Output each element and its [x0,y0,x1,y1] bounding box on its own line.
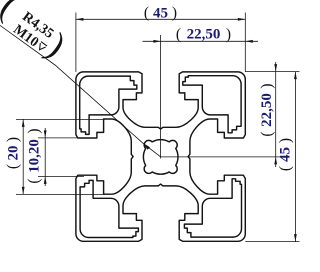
corner chamber bottom-right [184,179,241,237]
arrowhead (10,20) bottom [44,176,47,184]
dimension line (10,20) left [44,128,46,186]
dimension line (45) right [294,72,296,242]
horizontal centreline [161,156,280,158]
svg-text:(: ( [277,166,294,171]
svg-text:): ) [258,83,275,88]
dimension line (45) top [76,18,245,20]
dimension line (20) left [22,119,24,194]
svg-text:): ) [26,128,43,133]
corner chamber top-right [183,76,241,133]
arrowhead (22,50) top left [153,40,161,43]
svg-text:45: 45 [278,147,294,162]
extension line bottom edge, right dims [245,241,299,243]
svg-text:): ) [172,5,177,22]
extension line slot cavity top [16,118,105,120]
svg-text:): ) [277,138,294,143]
svg-text:(: ( [258,131,275,136]
centre bore [143,140,178,175]
arrowhead (20) top [22,119,25,127]
corner chamber top-left [80,76,137,134]
arrowhead (45) right top [294,72,297,80]
svg-text:(: ( [144,5,149,22]
leader line R4,35/M10 to bore centre [0,24,161,157]
arrowhead (20) bottom [22,187,25,195]
arrowhead 22,50 right bottom [274,157,277,165]
dimension line (22,50) top [143,40,259,42]
svg-text:(: ( [176,26,181,43]
svg-text:(: ( [26,178,43,183]
arrowhead (45) top left [76,18,84,21]
svg-text:(: ( [5,164,22,169]
extension line slot cavity bottom [16,193,105,195]
dimension line 22,50 right [275,62,277,167]
arrowhead (45) top right [238,18,246,21]
svg-text:): ) [5,137,22,142]
svg-text:20: 20 [5,146,21,161]
svg-text:22,50: 22,50 [187,27,221,43]
profile outer contour with 4 T-slots [76,72,245,241]
extension line left, top (45) dim [75,13,77,72]
leader arrowhead at bore [143,143,151,150]
extension line slot opening bottom [38,175,84,177]
arrowhead 22,50 right top [274,64,277,72]
extension line right, top dims [244,13,246,72]
svg-text:): ) [226,26,231,43]
svg-text:45: 45 [153,6,168,22]
svg-text:22,50: 22,50 [259,93,275,127]
corner chamber bottom-left [80,180,138,237]
extension line slot opening top [38,137,84,139]
arrowhead (22,50) top right [245,40,253,43]
vertical centreline [160,35,162,159]
arrowhead (45) right bottom [294,234,297,242]
svg-text:10,20: 10,20 [27,139,43,173]
arrowhead (10,20) top [44,130,47,138]
extension line top edge, right dims [245,71,299,73]
